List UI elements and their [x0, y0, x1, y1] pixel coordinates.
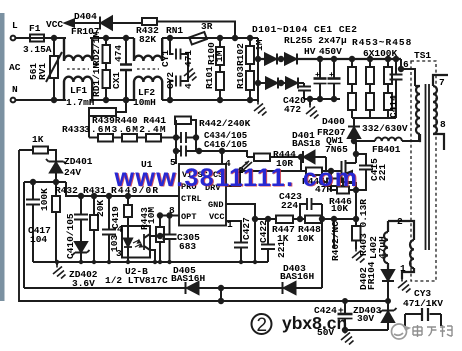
svg-text:100K: 100K [39, 188, 50, 211]
svg-text:4: 4 [117, 224, 123, 235]
svg-text:R453~R458: R453~R458 [352, 37, 412, 48]
diode D400 FR207 [348, 118, 360, 141]
svg-text:C422: C422 [258, 220, 269, 243]
resistor 1K [19, 147, 56, 162]
resistor R442/240K [175, 117, 196, 152]
svg-text:6: 6 [403, 59, 409, 70]
varistor RV1 561 [46, 38, 62, 100]
junction output node [386, 299, 390, 303]
capacitor C420 472 [298, 83, 311, 99]
transformer TS1 dashed box [411, 61, 436, 281]
svg-text:R432: R432 [55, 185, 78, 196]
junction bridge AC top [256, 57, 260, 61]
wire bottom signal bus [33, 261, 268, 263]
junction R103 bottom [248, 98, 252, 102]
svg-text:20K: 20K [95, 200, 106, 217]
svg-text:N: N [12, 84, 18, 95]
svg-text:ybx8.cn: ybx8.cn [282, 313, 347, 333]
junction R101 bottom [218, 98, 222, 102]
transformer core [426, 84, 430, 250]
svg-text:10K: 10K [297, 233, 314, 244]
svg-text:VCC: VCC [209, 212, 224, 222]
svg-text:RD1/1M: RD1/1M [91, 62, 102, 97]
svg-text:683: 683 [179, 241, 196, 252]
label 561 RV1 [28, 63, 48, 80]
svg-text:FR104: FR104 [366, 261, 377, 290]
wire gate drive row [247, 156, 326, 158]
svg-text:3: 3 [116, 248, 122, 259]
optocoupler U2-B box [122, 226, 150, 258]
junction pin4 [220, 149, 224, 153]
junction C415 drain [354, 152, 358, 156]
ground CY mid [184, 67, 197, 81]
capacitor CY1 471 [170, 38, 188, 67]
svg-text:+: + [315, 70, 320, 80]
transformer primary winding [415, 86, 420, 141]
svg-text:3.15A: 3.15A [23, 44, 52, 55]
svg-text:1.7mH: 1.7mH [66, 97, 95, 108]
junction C434 right [194, 135, 198, 139]
capacitor C419 103 [102, 196, 116, 262]
resistor R446 10K [331, 171, 356, 194]
arrow VCC [65, 20, 74, 27]
page number circled 2 [252, 314, 272, 336]
svg-text:221: 221 [276, 241, 287, 258]
resistor R431 20K [90, 196, 98, 262]
junction clamp R457 top [386, 57, 390, 61]
junction R100 top [218, 36, 222, 40]
resistor R101 1M [216, 65, 224, 100]
resistor R449/0R [124, 196, 132, 226]
wire L line [16, 37, 67, 39]
svg-text:471/1KV: 471/1KV [403, 298, 443, 309]
fuse F1 3.15A [30, 35, 44, 42]
svg-text:L: L [12, 20, 18, 31]
capacitor C415 221 [356, 154, 373, 190]
svg-text:7N65: 7N65 [325, 144, 348, 155]
wire R402/NC stub [333, 219, 335, 248]
resistor R454 [348, 93, 356, 118]
svg-text:104: 104 [30, 234, 47, 245]
junction C422 top [266, 217, 270, 221]
resistor R439 3.6M [98, 134, 113, 142]
resistor RD1/1M [103, 63, 111, 100]
svg-text:CTRL: CTRL [181, 194, 202, 204]
junction sense left [253, 217, 257, 221]
svg-text:RN1: RN1 [166, 25, 183, 36]
junction C424 bottom [343, 328, 347, 332]
junction startup-rail [233, 36, 237, 40]
junction R102 top [248, 36, 252, 40]
ground bridge left [254, 102, 267, 116]
capacitor CY2 471 [170, 67, 188, 100]
svg-text:8: 8 [169, 205, 175, 216]
svg-text:8: 8 [440, 119, 446, 130]
junction C419 top [107, 194, 111, 198]
wire aux riser [321, 204, 323, 288]
svg-text:7: 7 [439, 77, 445, 88]
svg-text:BAS18: BAS18 [292, 138, 321, 149]
wire bottom rail after LF2 [162, 99, 258, 101]
svg-text:1: 1 [400, 263, 406, 274]
junction L-RV1 [52, 36, 56, 40]
transformer aux winding 7-8 [433, 75, 448, 150]
scanned page edge band [0, 13, 5, 301]
wire top rail after LF2 [162, 37, 189, 39]
junction CY2 bottom [168, 98, 172, 102]
capacitor C416/105 [176, 146, 196, 157]
resistor R433 [89, 108, 116, 116]
junction R449 top [126, 194, 130, 198]
svg-text:C416/105: C416/105 [204, 140, 247, 150]
junction R431 top [92, 194, 96, 198]
svg-text:LF1: LF1 [70, 85, 87, 96]
wire R433 tap [89, 100, 126, 138]
svg-text:3.6V: 3.6V [72, 278, 95, 289]
terminal L [11, 36, 16, 41]
wire pin4 stub [221, 151, 223, 164]
wire bus tie [220, 288, 222, 301]
svg-text:R442/240K: R442/240K [199, 118, 251, 129]
wire clamp bottom [352, 117, 396, 119]
optocoupler arrows [133, 240, 143, 247]
ground signal bus [53, 262, 66, 279]
resistor R102 1M [246, 38, 254, 64]
junction CE2 bottom [332, 97, 336, 101]
resistor R448 10K [305, 216, 321, 224]
IC U1 box [179, 164, 226, 226]
junction OPT-C305 [167, 213, 171, 217]
svg-text:332/630V: 332/630V [362, 123, 408, 134]
optocoupler LED [124, 226, 132, 262]
wire DRV pin [226, 171, 301, 186]
junction OPT-R443 [158, 213, 162, 217]
optocoupler transistor [144, 234, 155, 262]
diode D404 FR107 [100, 17, 112, 30]
junction C414 top [394, 57, 398, 61]
svg-text:82K: 82K [139, 34, 156, 45]
svg-text:2: 2 [257, 315, 268, 336]
capacitor C423 224 bypass [300, 198, 322, 219]
resistor RD2/1M [103, 38, 111, 63]
svg-text:D400: D400 [322, 116, 345, 127]
resistor R403 0.13R [352, 192, 361, 249]
wire feedback outer loop [19, 150, 388, 301]
junction CX1 bottom [124, 98, 128, 102]
zener ZD403 30V [380, 301, 397, 330]
svg-text:10M: 10M [146, 207, 157, 224]
diode D102 [285, 54, 297, 65]
resistor R447 1K [276, 216, 293, 224]
junction 100K top [54, 180, 58, 184]
wire control rail CTRL [66, 182, 179, 196]
junction CX1 top [124, 36, 128, 40]
capacitor C434/105 [176, 132, 196, 143]
junctions signal bus [55, 260, 257, 264]
svg-text:224: 224 [281, 200, 298, 211]
junction R433 tap [124, 98, 128, 102]
svg-text:C414: C414 [388, 95, 399, 118]
svg-text:10mH: 10mH [133, 97, 156, 108]
svg-text:RV1: RV1 [37, 63, 48, 80]
resistor R443 10M [156, 227, 164, 262]
junction drain-FB [352, 139, 356, 143]
svg-text:FB401: FB401 [372, 144, 401, 155]
resistor R444 10R [254, 154, 270, 162]
svg-text:AC: AC [9, 62, 21, 73]
junction CS [197, 149, 201, 153]
diode D103 [266, 78, 278, 89]
capacitor CE1 2x47u [314, 59, 327, 99]
svg-text:R402/NC: R402/NC [330, 221, 341, 261]
junction bridge bottom mid [279, 81, 283, 85]
junction R447-R448 [298, 217, 302, 221]
zener ZD402 3.6V [73, 242, 90, 262]
capacitor C427 [234, 243, 248, 263]
capacitor C414 332/630V [390, 59, 403, 118]
resistor R457 [384, 59, 392, 93]
svg-text:C427: C427 [241, 217, 252, 240]
svg-text:1: 1 [227, 219, 233, 230]
svg-text:VCC: VCC [46, 19, 63, 30]
junction clamp R455 top [368, 57, 372, 61]
junction R402 top [332, 217, 336, 221]
junction chain-C434 [174, 135, 178, 139]
resistor R445b 47R series [322, 179, 352, 187]
wire N line [16, 99, 67, 101]
junction top rail RD [104, 36, 108, 40]
svg-text:3R: 3R [201, 21, 213, 32]
wire VCC startup line [74, 22, 235, 39]
svg-text:GND: GND [208, 200, 223, 210]
resistor R445 47R [301, 157, 342, 175]
junction tie top [219, 286, 223, 290]
resistor R440 3.6M [122, 134, 137, 142]
resistor R103 [246, 64, 254, 100]
junction clamp R453 top [350, 57, 354, 61]
capacitor CY3 471/1KV [405, 308, 441, 326]
svg-text:F1: F1 [29, 23, 41, 34]
junction C417 top [31, 180, 35, 184]
capacitor CX1 474 [120, 38, 132, 100]
label U1 pins [181, 170, 224, 222]
junction bridge AC bottom [256, 81, 260, 85]
capacitor C417 104 [26, 182, 40, 262]
resistor R458 [384, 93, 392, 118]
junction neg bus [308, 97, 312, 101]
junction gate [329, 169, 333, 173]
junction CE1 bottom [318, 97, 322, 101]
svg-text:1M: 1M [254, 39, 265, 51]
capacitor C305 683 [163, 216, 177, 263]
junction bridge top mid [279, 57, 283, 61]
svg-text:474: 474 [113, 45, 124, 62]
ground output [341, 331, 354, 345]
svg-text:6X100K: 6X100K [363, 48, 398, 59]
resistor R432 82K [142, 18, 157, 25]
resistor R456 [366, 93, 374, 118]
svg-text:30V: 30V [357, 313, 374, 324]
svg-text:4: 4 [183, 83, 194, 89]
wire top rail after LF1 [90, 37, 134, 39]
resistor R455 [366, 59, 374, 93]
wire OPT pin [160, 216, 179, 228]
wire CS line [196, 151, 247, 157]
wire HV to pin6 [401, 59, 415, 86]
junction N-RV1 [52, 98, 56, 102]
wire negative bus [304, 98, 340, 100]
svg-text:OPT: OPT [181, 212, 196, 222]
wire bottom rail after LF1 [90, 99, 134, 101]
junction bottom rail RD [104, 98, 108, 102]
arrow mark near pin2 [239, 161, 252, 171]
svg-text:24V: 24V [64, 167, 81, 178]
diode D104 [286, 78, 298, 89]
svg-text:2: 2 [397, 216, 403, 227]
junction C424 top [343, 299, 347, 303]
junction C423 right [320, 217, 324, 221]
wire HV pin node [175, 120, 177, 164]
wire GND pin [226, 204, 255, 262]
wire opto collector [150, 235, 160, 237]
diode D101 [265, 54, 277, 65]
resistor 100K [52, 182, 60, 262]
svg-text:BAS16H: BAS16H [280, 271, 315, 282]
terminal N [11, 98, 16, 103]
wire output ground line [345, 329, 388, 331]
junction C416 left [174, 149, 178, 153]
svg-text:www.3811111. com: www.3811111. com [114, 164, 359, 192]
resistor R100 1M [216, 38, 224, 65]
logo dianzibao text [413, 325, 452, 337]
svg-text:+: + [329, 70, 334, 80]
svg-text:R431: R431 [83, 185, 106, 196]
svg-text:BAS16H: BAS16H [171, 273, 206, 284]
svg-text:3.6M3.6M2.4M: 3.6M3.6M2.4M [84, 124, 167, 135]
capacitor C422 221 [261, 219, 275, 262]
svg-text:10K: 10K [331, 203, 348, 214]
svg-text:ZD401: ZD401 [64, 156, 93, 167]
svg-text:221: 221 [377, 164, 388, 181]
junction R443 opto [158, 234, 162, 238]
svg-text:R433: R433 [62, 124, 85, 135]
junction pin6 [399, 67, 403, 71]
diode D403 BAS16H [283, 282, 296, 294]
logo dianzibao circle [392, 324, 410, 339]
junction source node [354, 188, 358, 192]
svg-text:HV: HV [304, 46, 316, 57]
mosfet QW1 body [342, 160, 357, 190]
junction aux feed [320, 180, 324, 184]
wire bridge bottom row [258, 82, 304, 84]
ground bridge right [306, 99, 319, 119]
svg-text:R102: R102 [235, 43, 246, 66]
choke LF1 1.7mH [64, 38, 92, 100]
wire HV bus [258, 58, 401, 60]
svg-text:R101: R101 [204, 66, 215, 89]
diode D401 BAS18 [303, 151, 315, 163]
svg-text:1K: 1K [32, 134, 44, 145]
svg-text:CX1: CX1 [111, 72, 122, 89]
svg-text:D101~D104 CE1 CE2: D101~D104 CE1 CE2 [252, 24, 357, 35]
svg-text:471: 471 [183, 50, 194, 67]
svg-text:1/2 LTV817C: 1/2 LTV817C [105, 275, 168, 286]
ground secondary pin1 [398, 279, 411, 293]
svg-text:472: 472 [284, 104, 301, 115]
zener ZD401 24V [46, 159, 66, 182]
junction gate net left [299, 155, 303, 159]
svg-text:D404: D404 [74, 11, 97, 22]
wire bridge AC vertical [257, 38, 259, 93]
junction CE2 top [332, 57, 336, 61]
diode D402 FR104 [382, 270, 394, 301]
capacitor C424 4.7u 50V [338, 301, 353, 330]
wire inner loop left [23, 182, 25, 288]
wire VCC pin [226, 221, 241, 242]
choke LF2 10mH [134, 38, 162, 100]
resistor R453 [348, 59, 356, 93]
mosfet QW1 7N65 drain line [346, 141, 356, 163]
svg-text:RL255 2x47µ: RL255 2x47µ [284, 35, 347, 46]
junction CE1 top [318, 57, 322, 61]
capacitor CE2 2x47u [328, 59, 341, 99]
svg-text:450V: 450V [319, 46, 342, 57]
capacitor C410/105 [74, 196, 88, 242]
svg-text:TS1: TS1 [414, 50, 431, 61]
junction CY1 top [168, 36, 172, 40]
wire rail ZD401 node [24, 181, 66, 183]
svg-text:C410/105: C410/105 [65, 213, 76, 259]
resistor R441 2.4M [146, 134, 161, 142]
transformer secondary winding 2-1 [388, 221, 414, 279]
inductor L402 47uH [384, 221, 388, 270]
ground R403 [352, 249, 365, 263]
fusible resistor RN1 3R [189, 32, 258, 45]
wire sense chain [89, 137, 176, 139]
svg-text:R103: R103 [235, 66, 246, 89]
svg-text:RD2/1M: RD2/1M [91, 31, 102, 66]
svg-text:CY2: CY2 [165, 72, 176, 89]
wire inner bottom bus [24, 287, 322, 289]
svg-text:CY1: CY1 [160, 50, 171, 67]
wire sense rail [255, 218, 356, 220]
junction sense right [354, 217, 358, 221]
svg-text:1M: 1M [214, 50, 225, 62]
inductor FB401 [354, 134, 419, 141]
diode D405 BAS16H [186, 282, 199, 294]
junction tie bottom [219, 299, 223, 303]
junction C410 top [79, 194, 83, 198]
